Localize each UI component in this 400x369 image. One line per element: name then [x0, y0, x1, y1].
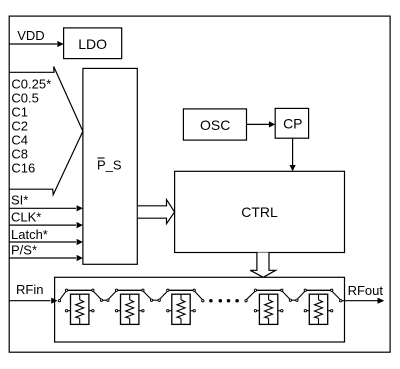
svg-text:C8: C8 [11, 146, 28, 161]
svg-text:VDD: VDD [17, 28, 44, 43]
svg-text:Latch*: Latch* [11, 227, 48, 242]
svg-text:CTRL: CTRL [241, 204, 278, 220]
svg-text:LDO: LDO [78, 36, 107, 52]
svg-text:SI*: SI* [11, 193, 28, 208]
svg-text:C0.25*: C0.25* [11, 76, 51, 91]
svg-text:P_S: P_S [97, 157, 122, 172]
svg-text:RFout: RFout [348, 283, 384, 298]
svg-text:CP: CP [283, 115, 302, 131]
svg-text:RFin: RFin [16, 282, 43, 297]
svg-text:C0.5: C0.5 [11, 90, 38, 105]
svg-text:P/S*: P/S* [11, 242, 37, 257]
svg-text:CLK*: CLK* [11, 210, 41, 225]
svg-text:OSC: OSC [200, 117, 230, 133]
svg-text:C16: C16 [11, 160, 35, 175]
svg-text:C1: C1 [11, 104, 28, 119]
svg-text:C4: C4 [11, 132, 28, 147]
svg-text:C2: C2 [11, 118, 28, 133]
